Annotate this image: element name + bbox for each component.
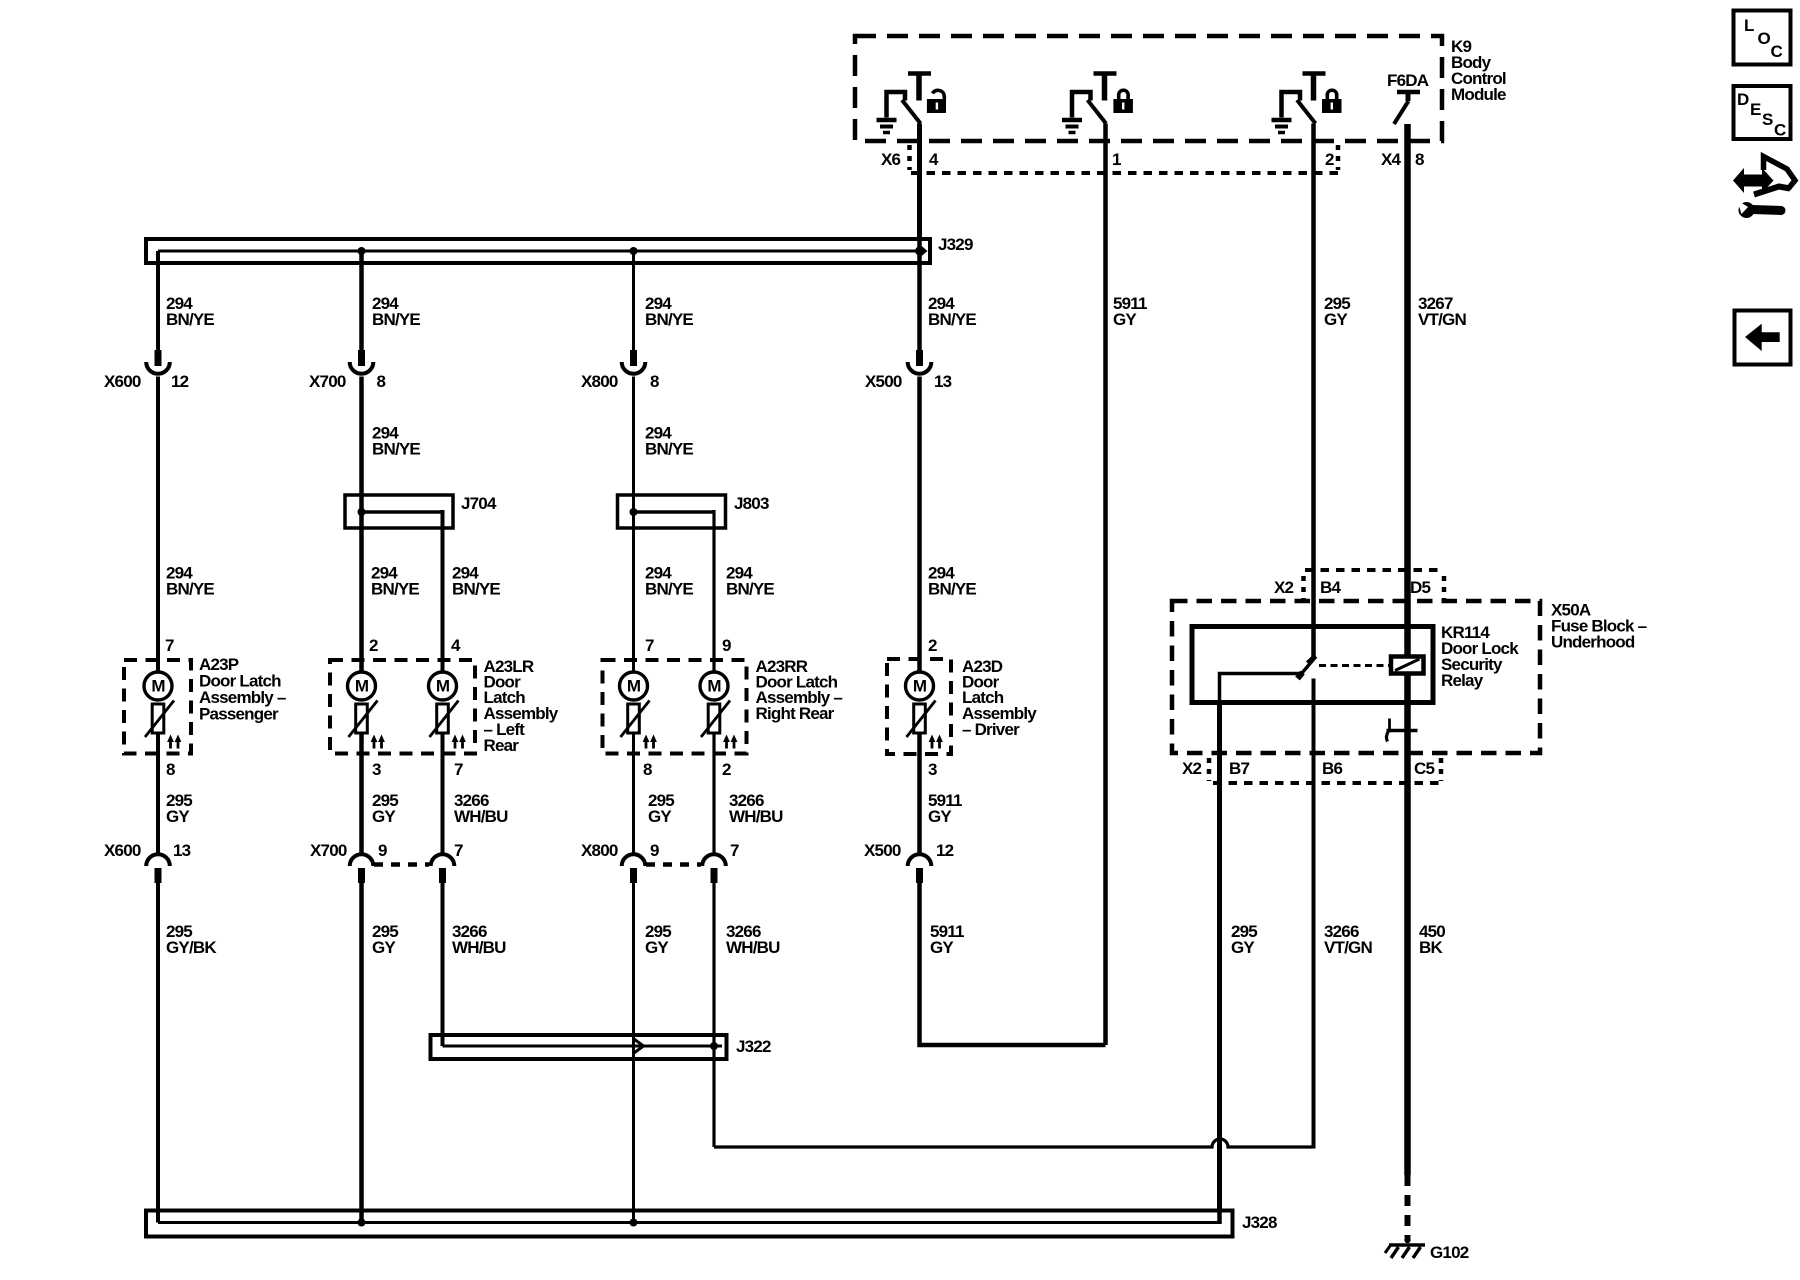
svg-text:D: D xyxy=(1737,90,1749,109)
wire 294 BN/YE J803 to A23RR left xyxy=(632,495,635,672)
svg-text:WH/BU: WH/BU xyxy=(726,938,780,957)
switch F6DA in BCM xyxy=(1394,92,1420,124)
wire 450 BK end dot xyxy=(1404,1237,1410,1243)
switch SW1 (unlock) in BCM xyxy=(887,74,932,124)
svg-text:BN/YE: BN/YE xyxy=(726,580,774,599)
wire 294 BN/YE X800-8 to J803 xyxy=(632,377,635,513)
ground in BCM at SW1 xyxy=(877,120,897,133)
wire label 450 BK relay C5 xyxy=(1419,922,1445,957)
svg-text:7: 7 xyxy=(730,841,739,860)
wire label 294 BN/YE col2 xyxy=(372,294,420,329)
svg-text:8: 8 xyxy=(1415,150,1424,169)
svg-text:9: 9 xyxy=(378,841,387,860)
relay common line to B7 xyxy=(1220,674,1301,703)
inline connector X700 pin 9 xyxy=(310,841,387,883)
wire 294 BN/YE J329 to X600-12 xyxy=(156,251,160,350)
svg-text:8: 8 xyxy=(650,372,659,391)
wire 3266 VT/GN B6 inside relay xyxy=(1312,679,1316,706)
svg-text:– Driver: – Driver xyxy=(962,720,1020,739)
svg-text:9: 9 xyxy=(650,841,659,860)
svg-text:7: 7 xyxy=(645,636,654,655)
wire label 294 BN/YE at A23RR pin9 xyxy=(726,564,774,599)
wire label 3266 VT/GN relay B6 xyxy=(1324,922,1372,957)
A23RR Door Latch Assembly box xyxy=(603,660,747,754)
wire 450 BK clip to dashed xyxy=(1404,730,1411,1175)
svg-text:GY: GY xyxy=(1324,310,1348,329)
wire label 5911 GY right xyxy=(1113,294,1147,329)
svg-text:BN/YE: BN/YE xyxy=(645,580,693,599)
inline connector X700 pin 8 xyxy=(309,350,386,391)
connector X2 top separator left xyxy=(1301,576,1306,599)
svg-text:7: 7 xyxy=(165,636,174,655)
svg-text:M: M xyxy=(707,677,721,696)
relay coil box xyxy=(1391,657,1424,674)
svg-text:J328: J328 xyxy=(1242,1213,1277,1232)
wire label 3266 WH/BU bottom col3 xyxy=(452,922,506,957)
svg-text:F6DA: F6DA xyxy=(1387,71,1429,90)
wire 450 BK dashed segment xyxy=(1405,1175,1411,1238)
svg-text:7: 7 xyxy=(454,760,463,779)
icon DESC box xyxy=(1734,86,1791,140)
wire label 295 GY below A23RR xyxy=(648,791,674,826)
svg-text:BN/YE: BN/YE xyxy=(452,580,500,599)
wire 294 BN/YE X500-13 to A23D xyxy=(917,377,922,673)
wire 3266 WH/BU X700-7 to J322 xyxy=(441,883,445,1046)
splice J322 xyxy=(431,1035,727,1059)
wire 3266 run to relay B6 with hop xyxy=(714,1139,1314,1147)
connector X800 bridge dashed xyxy=(646,862,701,867)
motor M A23LR right xyxy=(429,672,466,749)
svg-text:D5: D5 xyxy=(1410,578,1430,597)
relay blade pivot wedge xyxy=(1298,673,1303,679)
svg-text:7: 7 xyxy=(454,841,463,860)
svg-text:Right Rear: Right Rear xyxy=(756,704,835,723)
wire 295 GY X6-2 to relay B4 xyxy=(1311,124,1316,659)
svg-text:GY: GY xyxy=(648,807,672,826)
svg-text:BN/YE: BN/YE xyxy=(372,310,420,329)
wire label 294 BN/YE col1 xyxy=(166,294,214,329)
inline connector X800 pin 7 xyxy=(702,841,739,883)
svg-text:GY: GY xyxy=(930,938,954,957)
wire label 295 GY below A23LR xyxy=(372,791,398,826)
svg-text:X700: X700 xyxy=(309,372,346,391)
svg-text:M: M xyxy=(151,677,165,696)
clip symbol on C5 wire xyxy=(1386,719,1417,742)
wire 295 GY relay B7 to J328 xyxy=(1217,674,1222,1225)
K9 Body Control Module label xyxy=(1451,37,1506,104)
wire label 3266 WH/BU below A23LR xyxy=(454,791,508,826)
wire 3266 WH/BU A23RR to X800-7 xyxy=(712,733,715,856)
connector X2 top labels xyxy=(1274,578,1430,597)
svg-text:GY: GY xyxy=(372,938,396,957)
wire 5911 GY X500-12 to X6-1 U-path xyxy=(920,883,1106,1045)
padlock unlocked at SW1 xyxy=(927,90,946,113)
svg-text:X2: X2 xyxy=(1274,578,1294,597)
wire 295 GY B4 inside relay xyxy=(1311,624,1316,658)
svg-text:X800: X800 xyxy=(581,372,618,391)
svg-text:J803: J803 xyxy=(734,494,769,513)
splice J704 xyxy=(345,495,453,528)
wire 450 BK coil to clip xyxy=(1404,674,1411,731)
wire 294 BN/YE X6-4 to J329 xyxy=(917,124,922,252)
svg-text:GY: GY xyxy=(1113,310,1137,329)
wire label 294 BN/YE at A23RR pin7 xyxy=(645,564,693,599)
svg-text:B6: B6 xyxy=(1322,759,1342,778)
wire 3266 WH/BU J322 down to run xyxy=(712,1046,715,1147)
svg-text:BN/YE: BN/YE xyxy=(166,580,214,599)
svg-text:WH/BU: WH/BU xyxy=(452,938,506,957)
svg-text:C: C xyxy=(1771,42,1783,61)
svg-text:8: 8 xyxy=(377,372,386,391)
svg-text:WH/BU: WH/BU xyxy=(454,807,508,826)
splice J329 xyxy=(146,239,930,263)
svg-text:3: 3 xyxy=(372,760,381,779)
svg-text:GY/BK: GY/BK xyxy=(166,938,217,957)
ground in BCM at SW2 xyxy=(1062,120,1082,133)
wire label 3267 VT/GN right xyxy=(1418,294,1466,329)
wire label 294 BN/YE col4 xyxy=(928,294,976,329)
ground in BCM at SW3 xyxy=(1272,120,1292,133)
svg-text:2: 2 xyxy=(369,636,378,655)
svg-text:M: M xyxy=(355,677,369,696)
svg-text:2: 2 xyxy=(722,760,731,779)
wire 3267 VT/GN X4-8 to relay D5 xyxy=(1404,124,1411,658)
svg-text:X2: X2 xyxy=(1182,759,1202,778)
svg-text:Relay: Relay xyxy=(1441,671,1484,690)
motor M A23P xyxy=(144,672,181,749)
wire 5911 GY A23D to X500-12 xyxy=(917,733,922,856)
wire 294 BN/YE J329 to X500-13 xyxy=(917,239,922,350)
svg-text:Underhood: Underhood xyxy=(1551,633,1635,652)
wire 294 BN/YE J704 branch to A23LR right xyxy=(441,510,445,672)
wire 5911 GY X6-1 down xyxy=(1103,124,1108,1046)
A23P Door Latch Assembly box xyxy=(124,660,191,754)
splice J328 xyxy=(146,1210,1233,1237)
X50A Fuse Block box xyxy=(1172,601,1540,753)
padlock locked at SW3 xyxy=(1322,90,1342,113)
wire 294 BN/YE X700-8 to J704 xyxy=(359,377,364,513)
A23LR Door Latch Assembly box xyxy=(330,660,475,754)
svg-text:12: 12 xyxy=(936,841,954,860)
connector X2 top separator right xyxy=(1442,576,1447,599)
svg-text:BN/YE: BN/YE xyxy=(371,580,419,599)
svg-text:BN/YE: BN/YE xyxy=(645,440,693,459)
svg-text:O: O xyxy=(1758,29,1771,48)
svg-text:Module: Module xyxy=(1451,85,1506,104)
inline connector X700 pin 7 xyxy=(431,841,463,883)
wire 295 GY A23P to X600-13 xyxy=(156,733,160,856)
relay switch blade xyxy=(1299,657,1316,677)
connector X6 separator left xyxy=(907,145,912,170)
motor M A23RR right xyxy=(700,672,737,749)
connector X6 separator right xyxy=(1336,145,1341,170)
svg-text:X800: X800 xyxy=(581,841,618,860)
wire label 294 BN/YE at A23LR pin2 xyxy=(371,564,419,599)
wire label 294 BN/YE at A23D xyxy=(928,564,976,599)
wire label 295 GY right xyxy=(1324,294,1350,329)
svg-text:4: 4 xyxy=(451,636,461,655)
svg-text:BK: BK xyxy=(1419,938,1443,957)
svg-text:4: 4 xyxy=(929,150,939,169)
relay KR114 box xyxy=(1192,627,1433,703)
connector X2 bottom separator left xyxy=(1207,758,1212,781)
connector X2 top body dashed line xyxy=(1305,568,1442,572)
svg-text:B7: B7 xyxy=(1229,759,1249,778)
svg-text:Passenger: Passenger xyxy=(199,705,279,724)
connector X6 body dashed line xyxy=(911,171,1338,175)
wire label 3266 WH/BU bottom col5 xyxy=(726,922,780,957)
svg-text:X500: X500 xyxy=(865,372,902,391)
switch SW3 (lock) in BCM xyxy=(1282,74,1326,124)
svg-text:9: 9 xyxy=(722,636,731,655)
wire label 295 GY below A23P xyxy=(166,791,192,826)
wire 294 BN/YE X600-12 to A23P xyxy=(156,377,160,673)
svg-text:X4: X4 xyxy=(1381,150,1402,169)
wire 294 BN/YE J803 branch to A23RR right xyxy=(712,510,715,672)
svg-text:S: S xyxy=(1762,110,1773,129)
A23D label xyxy=(962,657,1037,739)
wire 3266 WH/BU X800-7 to J322 xyxy=(712,883,715,1046)
svg-text:X600: X600 xyxy=(104,372,141,391)
wire 295 GY X700-9 to J328 xyxy=(359,883,364,1223)
svg-text:GY: GY xyxy=(1231,938,1255,957)
wire 3266 VT/GN relay B6 down xyxy=(1312,679,1316,1149)
wire 295 GY A23RR to X800-9 xyxy=(632,733,635,856)
wire label 294 BN/YE col3 xyxy=(645,294,693,329)
A23P label xyxy=(199,655,286,724)
svg-text:C: C xyxy=(1774,121,1786,140)
svg-text:M: M xyxy=(627,677,641,696)
svg-text:GY: GY xyxy=(372,807,396,826)
wire 3267 VT/GN D5 inside relay xyxy=(1404,624,1411,658)
svg-text:J329: J329 xyxy=(938,235,973,254)
svg-text:13: 13 xyxy=(934,372,952,391)
svg-text:J322: J322 xyxy=(736,1037,771,1056)
svg-text:1: 1 xyxy=(1112,150,1121,169)
motor M A23D xyxy=(906,672,943,749)
wire label 5911 GY below A23D xyxy=(928,791,962,826)
wire label 3266 WH/BU below A23RR xyxy=(729,791,783,826)
svg-text:8: 8 xyxy=(643,760,652,779)
wire label 294 BN/YE above J704 xyxy=(372,424,420,459)
inline connector X500 pin 12 xyxy=(864,841,954,883)
svg-text:GY: GY xyxy=(928,807,952,826)
relay actuating dotted link xyxy=(1319,664,1390,667)
A23LR label xyxy=(484,657,559,755)
svg-text:12: 12 xyxy=(171,372,189,391)
wire label 294 BN/YE at A23P xyxy=(166,564,214,599)
wire 3266 WH/BU A23LR to X700-7 xyxy=(441,733,445,856)
KR114 label xyxy=(1441,623,1519,690)
splice J803 xyxy=(618,495,726,528)
svg-text:8: 8 xyxy=(166,760,175,779)
inline connector X600 pin 12 xyxy=(104,350,189,391)
svg-text:BN/YE: BN/YE xyxy=(928,310,976,329)
svg-text:E: E xyxy=(1750,100,1761,119)
svg-text:Rear: Rear xyxy=(484,736,520,755)
connector X2 bottom separator right xyxy=(1439,758,1444,781)
svg-text:M: M xyxy=(913,677,927,696)
wire label 295 GY/BK bottom col1 xyxy=(166,922,217,957)
inline connector X800 pin 9 xyxy=(581,841,659,883)
connector X6 pin row labels xyxy=(881,150,1424,169)
svg-text:3: 3 xyxy=(928,760,937,779)
wire label 294 BN/YE above J803 xyxy=(645,424,693,459)
wire 295 GY X800-9 crossing J322 xyxy=(632,1035,635,1059)
svg-text:2: 2 xyxy=(1325,150,1334,169)
inline connector X500 pin 13 xyxy=(865,350,952,391)
svg-text:L: L xyxy=(1744,16,1754,35)
motor M A23RR left xyxy=(620,672,657,749)
svg-text:X700: X700 xyxy=(310,841,347,860)
connector X2 bottom labels xyxy=(1182,759,1434,778)
svg-text:X500: X500 xyxy=(864,841,901,860)
wire 295 GY A23LR to X700-9 xyxy=(359,733,364,856)
svg-text:GY: GY xyxy=(645,938,669,957)
inline connector X600 pin 13 xyxy=(104,841,191,883)
inline connector X800 pin 8 xyxy=(581,350,659,391)
relay B4 contact tick xyxy=(1307,656,1315,663)
ground G102 xyxy=(1385,1245,1425,1258)
svg-text:WH/BU: WH/BU xyxy=(729,807,783,826)
connector X700 bridge dashed xyxy=(374,862,429,867)
svg-text:BN/YE: BN/YE xyxy=(372,440,420,459)
connector X2 bottom body dashed line xyxy=(1213,781,1440,785)
A23RR label xyxy=(756,657,843,723)
wire label 295 GY bottom col4 xyxy=(645,922,671,957)
wire label 5911 GY bottom col6 xyxy=(930,922,964,957)
icon double-arrow with wrench xyxy=(1733,157,1795,219)
svg-text:B4: B4 xyxy=(1320,578,1341,597)
svg-text:BN/YE: BN/YE xyxy=(928,580,976,599)
K9 Body Control Module box xyxy=(855,36,1442,141)
svg-text:J704: J704 xyxy=(461,494,497,513)
wire label 295 GY bottom col2 xyxy=(372,922,398,957)
svg-text:VT/GN: VT/GN xyxy=(1418,310,1466,329)
padlock locked at SW2 xyxy=(1113,90,1133,113)
wire label 295 GY relay B7 xyxy=(1231,922,1257,957)
wire 295 GY/BK X600-13 to J328 xyxy=(156,883,160,1223)
switch SW2 (lock) in BCM xyxy=(1072,74,1117,124)
svg-text:GY: GY xyxy=(166,807,190,826)
svg-text:G102: G102 xyxy=(1430,1243,1469,1262)
wire 295 GY X800-9 to J328 xyxy=(632,883,635,1223)
svg-text:BN/YE: BN/YE xyxy=(645,310,693,329)
svg-text:2: 2 xyxy=(928,636,937,655)
motor M A23LR left xyxy=(348,672,385,749)
svg-text:X6: X6 xyxy=(881,150,901,169)
X50A label xyxy=(1551,601,1647,652)
svg-text:13: 13 xyxy=(173,841,191,860)
icon LOC box xyxy=(1734,11,1791,65)
svg-text:BN/YE: BN/YE xyxy=(166,310,214,329)
wire 294 BN/YE J329 to X700-8 xyxy=(359,251,364,350)
wire 294 BN/YE J329 to X800-8 xyxy=(632,251,635,350)
wire label 294 BN/YE at A23LR pin4 xyxy=(452,564,500,599)
svg-text:M: M xyxy=(436,677,450,696)
svg-text:X600: X600 xyxy=(104,841,141,860)
svg-text:VT/GN: VT/GN xyxy=(1324,938,1372,957)
svg-text:C5: C5 xyxy=(1414,759,1434,778)
A23D Door Latch Assembly box xyxy=(887,659,951,754)
wire 294 BN/YE J704 to A23LR left xyxy=(359,495,364,672)
icon back-arrow box xyxy=(1735,311,1791,365)
